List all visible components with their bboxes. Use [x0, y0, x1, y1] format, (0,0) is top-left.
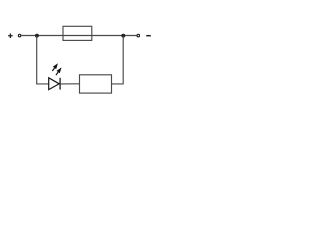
minus terminal label	[146, 35, 151, 37]
node junction left	[35, 34, 39, 38]
resistor R1	[80, 75, 112, 93]
wire left vertical	[37, 36, 49, 84]
fuse F1	[63, 26, 92, 40]
wire top rail	[21, 35, 136, 37]
wire resistor to right vertical	[112, 36, 124, 84]
wire LED to resistor	[61, 83, 80, 85]
terminal circle left	[18, 34, 21, 37]
LED D1	[49, 63, 62, 89]
terminal circle right	[137, 34, 140, 37]
node junction right	[121, 34, 125, 38]
plus terminal label	[8, 33, 13, 38]
